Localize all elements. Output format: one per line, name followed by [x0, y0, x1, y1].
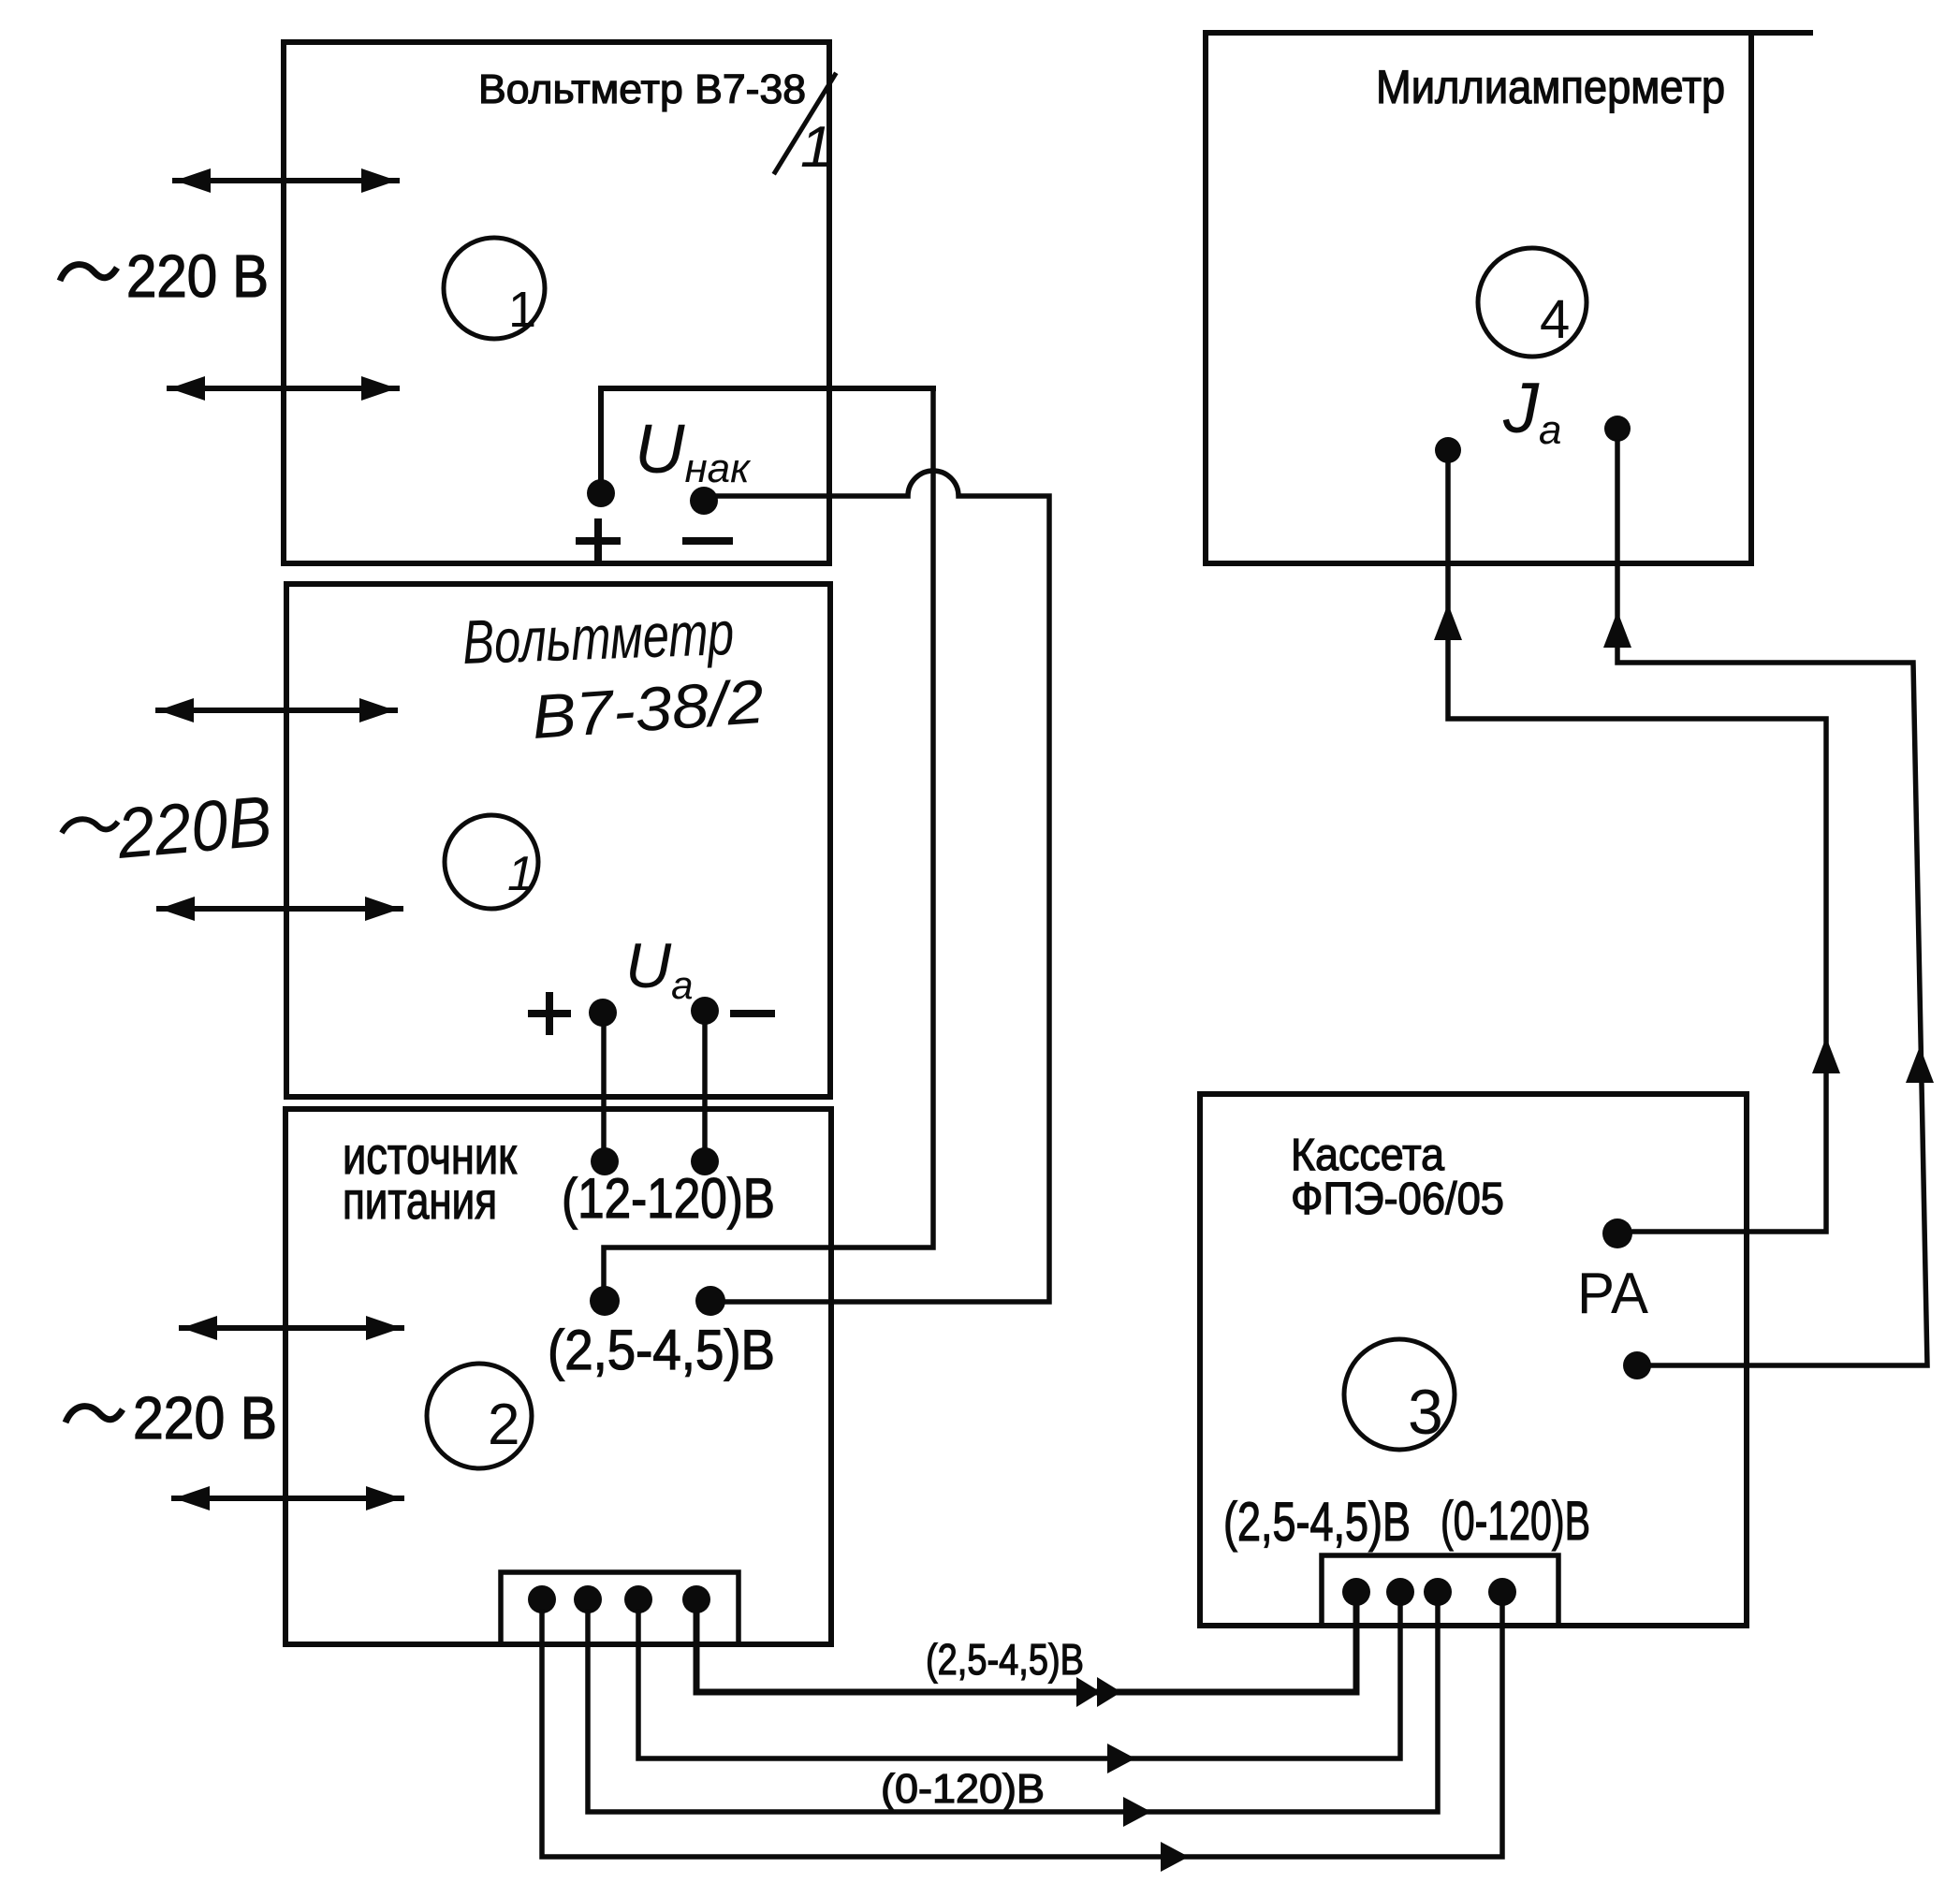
mains arrow A1 (U1 upper): [175, 168, 397, 193]
svg-text:4: 4: [1540, 289, 1570, 350]
svg-text:(0-120)В: (0-120)В: [1441, 1491, 1590, 1552]
terminal block Uнак outline wire: [601, 388, 933, 493]
arrow on W1: [1161, 1842, 1189, 1872]
PSU bottom terminal strip: [501, 1572, 739, 1640]
svg-text:(12-120)В: (12-120)В: [562, 1167, 775, 1230]
strip terminal K4: [1488, 1578, 1516, 1606]
svg-text:Миллиамперметр: Миллиамперметр: [1376, 61, 1725, 113]
svg-text:1: 1: [508, 282, 536, 338]
wire W-B : Uнак(-) to PSU (2,5-4,5)В right terminal (hop over W-A): [718, 471, 1049, 1302]
arrow on W2: [1123, 1797, 1151, 1827]
terminal Ua -: [691, 997, 719, 1025]
svg-text:3: 3: [1408, 1377, 1443, 1448]
svg-text:Вольтметр В7-38: Вольтметр В7-38: [478, 66, 806, 112]
strip terminal S4: [682, 1585, 710, 1613]
wire W3 : PSU S3 to cassette K2: [638, 1603, 1400, 1758]
wire Ua- to PSU (12-120)В right terminal: [702, 1025, 708, 1149]
wire W2 : PSU S2 to cassette K3 (0-120)В: [588, 1603, 1438, 1812]
milliammeter terminal Ja right: [1604, 416, 1631, 442]
label: ~220 В (U1): [60, 265, 117, 281]
plus sign (Uнак): [579, 522, 617, 560]
terminal (12-120)В right: [691, 1147, 719, 1175]
wire W-Q : mA right terminal to cassette PA lower: [1617, 442, 1927, 1365]
svg-text:220В: 220В: [113, 781, 275, 874]
svg-text:(2,5-4,5)В: (2,5-4,5)В: [1223, 1492, 1411, 1553]
svg-text:(0-120)В: (0-120)В: [881, 1766, 1045, 1812]
mains arrow A6 (U3 lower): [174, 1486, 402, 1510]
indicator lamp circle 1 (U2): [445, 815, 538, 909]
mains arrow A5 (U3 upper): [182, 1316, 402, 1340]
wire W-P : mA left terminal to cassette PA upper: [1448, 463, 1826, 1232]
handwritten mark /1 on U1: [775, 75, 835, 172]
milliammeter top edge overhang: [1751, 30, 1810, 36]
svg-text:Кассета: Кассета: [1291, 1131, 1444, 1180]
svg-text:РА: РА: [1577, 1262, 1649, 1326]
terminal (2,5-4,5)В left: [590, 1286, 620, 1316]
terminal Ua +: [589, 999, 617, 1027]
strip terminal S1: [528, 1585, 556, 1613]
svg-text:1: 1: [800, 115, 832, 180]
svg-text:(2,5-4,5)В: (2,5-4,5)В: [548, 1319, 775, 1381]
minus sign (Uнак): [686, 537, 729, 545]
voltmeter V7-38/1 box U1: [284, 42, 829, 563]
strip terminal K2: [1386, 1578, 1414, 1606]
strip terminal S3: [624, 1585, 652, 1613]
wire Ua+ to PSU (12-120)В left terminal: [601, 1027, 607, 1149]
terminal (2,5-4,5)В right: [695, 1286, 725, 1316]
mains arrow A4 (U2 lower): [159, 897, 401, 921]
svg-text:220 В: 220 В: [126, 242, 269, 310]
arrow on W-P near mA: [1434, 604, 1462, 640]
milliammeter box U4: [1206, 33, 1751, 563]
strip terminal S2: [574, 1585, 602, 1613]
cassette terminal PA upper: [1602, 1218, 1632, 1248]
wire W4 : PSU S4 to cassette K1 (2,5-4,5)В: [696, 1603, 1356, 1692]
cassette terminal PA lower: [1623, 1351, 1651, 1379]
strip terminal K1: [1342, 1578, 1370, 1606]
wire W-A : Uнак(+) to PSU (2,5-4,5)В left terminal: [604, 388, 933, 1290]
indicator lamp circle 3 (U5): [1344, 1339, 1455, 1450]
label: ~220 В (U3): [66, 1407, 123, 1423]
arrow on W-Q near cassette: [1906, 1046, 1934, 1083]
svg-text:2: 2: [488, 1393, 519, 1457]
svg-text:(2,5-4,5)В: (2,5-4,5)В: [926, 1635, 1084, 1684]
mains arrow A2 (U1 lower): [169, 376, 397, 401]
milliammeter terminal Ja left: [1435, 437, 1461, 463]
arrow on W3: [1107, 1744, 1135, 1773]
terminal +Uнак: [587, 479, 615, 507]
plus sign (Ua): [532, 996, 567, 1031]
power supply box U3: [285, 1109, 831, 1644]
svg-text:220 В: 220 В: [133, 1384, 277, 1452]
svg-text:питания: питания: [343, 1171, 497, 1230]
arrow on W-P near cassette: [1812, 1037, 1840, 1073]
double arrow on W4: [1076, 1677, 1121, 1707]
terminal -Uнак: [690, 487, 718, 515]
svg-text:Вольтметр: Вольтметр: [461, 598, 735, 677]
wire W1 : PSU S1 to cassette K4: [542, 1603, 1502, 1857]
voltmeter V7-38/2 box U2: [286, 584, 830, 1097]
terminal (12-120)В left: [591, 1147, 619, 1175]
cassette bottom terminal strip: [1322, 1555, 1558, 1623]
strip terminal K3: [1424, 1578, 1452, 1606]
indicator lamp circle 2 (U3): [427, 1364, 532, 1468]
label: ~220B handwritten (U2): [62, 819, 118, 833]
indicator lamp circle 4 (U4): [1478, 248, 1587, 357]
indicator lamp circle 1 (U1): [444, 238, 545, 339]
cassette FPE-06/05 box U5: [1200, 1094, 1747, 1626]
arrow on W-Q near mA: [1603, 611, 1631, 648]
mains arrow A3 (U2 upper): [158, 698, 395, 722]
svg-text:ФПЭ-06/05: ФПЭ-06/05: [1291, 1175, 1504, 1224]
minus sign (Ua): [734, 1010, 771, 1017]
svg-text:1: 1: [507, 847, 534, 901]
